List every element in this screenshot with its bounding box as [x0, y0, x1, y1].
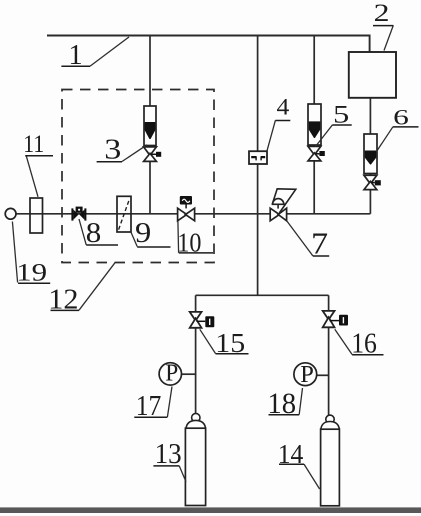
underline label 9 — [137, 246, 170, 248]
wire: center drop from pipe 1 through element 4 and valve 7 node down to manifold — [257, 36, 259, 296]
svg-text:4: 4 — [277, 95, 290, 120]
leader for label 7 — [287, 221, 313, 256]
svg-text:16: 16 — [351, 328, 377, 360]
underline label 8 — [86, 244, 118, 246]
leader for label 9 — [131, 232, 137, 247]
svg-text:8: 8 — [86, 217, 102, 249]
underline label 15 — [216, 353, 249, 355]
underline label 6 — [393, 126, 419, 128]
underline label 19 — [18, 282, 50, 284]
svg-text:P: P — [300, 361, 314, 388]
leader for label 6 — [377, 127, 394, 152]
underline label 12 — [51, 309, 80, 311]
wire: stub from gauge 17 to left branch — [181, 373, 195, 375]
wire: left horizontal header from bubbler 19 to junction below rotameter 6 — [16, 213, 370, 215]
wire: top supply pipe 1 with corner down to box 2 — [47, 36, 370, 53]
leader for label 18 — [299, 388, 302, 415]
svg-text:19: 19 — [16, 260, 47, 287]
svg-text:15: 15 — [215, 328, 245, 358]
underline label 16 — [352, 354, 383, 356]
cylinder 13 shoulder — [186, 420, 206, 428]
pressure gauge 18 — [294, 363, 317, 386]
rotameter 3 float — [145, 122, 156, 139]
needle valve under rotameter 6 — [364, 175, 377, 184]
underline label 5 — [333, 124, 352, 126]
wire: left branch from manifold through valve 15 to cylinder 13 — [195, 295, 197, 414]
valve 7 diaphragm dome — [272, 203, 286, 205]
pressure gauge 17 — [159, 363, 181, 385]
wire: stub from gauge 18 to right branch — [316, 374, 328, 376]
svg-text:1: 1 — [68, 39, 82, 71]
needle valve under rotameter 5 — [308, 146, 321, 155]
bubbler circle 19 — [5, 208, 16, 219]
valve 8 — [72, 208, 85, 220]
cylinder 13 valve knob — [192, 413, 200, 421]
svg-text:14: 14 — [278, 439, 304, 469]
underline label 10 — [179, 252, 213, 254]
needle valve under rotameter 3 — [144, 147, 157, 156]
leader for label 15 — [200, 329, 216, 353]
leader for label 16 — [335, 329, 352, 354]
svg-text:2: 2 — [374, 0, 390, 27]
leader for label 14 — [304, 464, 320, 489]
svg-text:12: 12 — [48, 284, 78, 316]
svg-text:P: P — [165, 361, 178, 387]
dashed enclosure 12 — [62, 90, 214, 263]
filter 9 — [117, 196, 131, 232]
solenoid valve 10 — [178, 208, 187, 221]
underline label 1 — [61, 65, 90, 67]
svg-text:7: 7 — [311, 227, 328, 261]
wire: bottom manifold — [196, 294, 329, 296]
cylinder 14 body — [321, 429, 340, 506]
underline label 11 — [25, 155, 53, 157]
underline label 3 — [97, 161, 122, 163]
leader for label 11 — [26, 156, 38, 197]
valve 16 — [323, 311, 335, 320]
underline label 18 — [269, 414, 300, 416]
leader for label 12 — [79, 263, 115, 311]
wire: drop from pipe 1 through rotameter 3 down to left header — [149, 36, 151, 214]
underline label 7 — [313, 255, 329, 257]
wire: from box 2 bottom through rotameter 6 down to right header — [369, 98, 371, 214]
leader for label 17 — [167, 387, 172, 418]
svg-text:6: 6 — [393, 105, 409, 130]
underline label 2 — [373, 25, 393, 27]
box 2 — [349, 52, 396, 98]
leader for label 3 — [122, 145, 147, 162]
valve 15 — [190, 312, 202, 321]
rotameter 3 body — [144, 106, 156, 146]
leader for label 2 — [384, 25, 393, 50]
rotameter 6 float — [365, 151, 377, 165]
cylinder 14 valve knob — [326, 415, 334, 423]
three-way valve 7 body — [270, 208, 279, 221]
rotameter 5 body — [308, 104, 321, 145]
svg-text:13: 13 — [155, 438, 182, 470]
svg-text:10: 10 — [177, 228, 201, 258]
underline label 17 — [134, 416, 167, 418]
leader for label 1 — [90, 37, 129, 66]
leader for label 8 — [79, 219, 86, 245]
wire: drop from pipe 1 through rotameter 5 down to right header — [313, 36, 315, 214]
svg-text:5: 5 — [333, 100, 349, 129]
element 4 (flashback arrestor) — [249, 151, 267, 164]
cylinder 13 body — [185, 428, 205, 505]
wire: right branch from manifold through valve 16 to cylinder 14 — [328, 295, 330, 415]
leader for label 13 — [179, 466, 186, 482]
rotameter 6 body — [364, 134, 377, 174]
bottom border band — [0, 507, 421, 513]
leader for label 10 — [177, 221, 180, 253]
cylinder 14 shoulder — [321, 422, 340, 430]
underline label 13 — [153, 465, 179, 467]
leader for label 4 — [267, 120, 275, 151]
valve 7 actuator flag — [272, 189, 295, 213]
underline label 14 — [279, 463, 304, 465]
svg-text:3: 3 — [104, 134, 121, 166]
svg-text:9: 9 — [135, 217, 151, 249]
underline label 4 — [275, 120, 290, 122]
svg-text:18: 18 — [267, 388, 296, 420]
leader for label 5 — [316, 125, 333, 147]
rotameter 5 float — [309, 121, 321, 138]
svg-text:11: 11 — [23, 129, 44, 158]
level vessel 11 — [30, 198, 43, 233]
svg-text:17: 17 — [136, 390, 162, 422]
leader for label 19 — [12, 222, 17, 283]
